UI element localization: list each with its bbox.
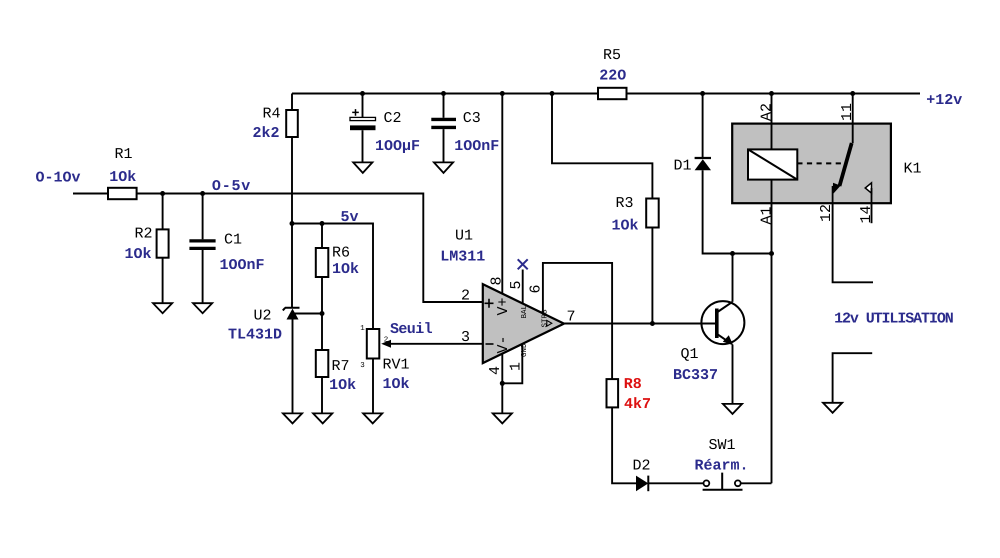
svg-text:BC337: BC337 bbox=[673, 367, 718, 384]
svg-text:LM311: LM311 bbox=[440, 249, 485, 266]
ground R7 bbox=[313, 413, 332, 423]
wire A1 down to SW1 bbox=[771, 180, 773, 484]
junction rail/R3 bbox=[550, 91, 555, 96]
switch SW1 push button bbox=[694, 437, 748, 490]
wire R4 top stub bbox=[291, 94, 293, 111]
wire utilisation return stub bbox=[833, 353, 873, 403]
svg-text:Q1: Q1 bbox=[680, 346, 698, 363]
wire RV1 bottom bbox=[372, 359, 374, 414]
svg-text:1Ok: 1Ok bbox=[382, 376, 409, 393]
svg-text:1Ok: 1Ok bbox=[329, 377, 356, 394]
wire pin 7 output bbox=[564, 323, 715, 325]
ground C2 bbox=[353, 162, 372, 173]
wire pin 6 to R8 bbox=[543, 263, 612, 379]
ground R2 bbox=[153, 303, 172, 313]
wire pin 5 stub bbox=[522, 270, 524, 304]
svg-text:R3: R3 bbox=[615, 195, 633, 212]
resistor R1 bbox=[108, 146, 137, 199]
svg-text:R6: R6 bbox=[332, 245, 350, 262]
wire input 0-10v bbox=[73, 193, 108, 195]
svg-text:1OOnF: 1OOnF bbox=[454, 138, 499, 155]
wire D2 to SW1 bbox=[648, 482, 703, 484]
wire SW1 to A1 net bbox=[741, 482, 772, 484]
svg-text:3: 3 bbox=[360, 361, 365, 370]
svg-text:R2: R2 bbox=[134, 226, 152, 243]
wire Q1 collector bbox=[732, 254, 734, 302]
svg-text:BAL: BAL bbox=[521, 304, 529, 318]
resistor R2 bbox=[124, 226, 168, 264]
svg-text:12v UTILISATION: 12v UTILISATION bbox=[834, 311, 954, 328]
svg-text:+12v: +12v bbox=[926, 92, 962, 109]
wire C1 bottom bbox=[202, 250, 204, 303]
ground RV1 bbox=[363, 413, 382, 423]
wire R3 bottom to pin7 net bbox=[651, 228, 653, 324]
svg-text:1OOnF: 1OOnF bbox=[219, 257, 264, 274]
ground Q1 bbox=[723, 404, 742, 414]
svg-text:1Ok: 1Ok bbox=[124, 246, 151, 263]
svg-text:1OOµF: 1OOµF bbox=[375, 138, 420, 155]
svg-text:STRB: STRB bbox=[541, 309, 550, 328]
potentiometer RV1 bbox=[360, 325, 409, 393]
svg-text:C3: C3 bbox=[463, 110, 481, 127]
wire C1 top bbox=[202, 194, 204, 240]
svg-text:R4: R4 bbox=[262, 106, 280, 123]
no-connect X pin 5 bbox=[518, 259, 528, 269]
ground U2 bbox=[283, 413, 302, 423]
svg-text:RV1: RV1 bbox=[382, 357, 409, 374]
junction U2ref/R6/R7 bbox=[320, 311, 325, 316]
junction rail/A2 bbox=[769, 91, 774, 96]
junction R4/5v bbox=[290, 221, 295, 226]
svg-text:K1: K1 bbox=[903, 161, 921, 178]
svg-text:Seuil: Seuil bbox=[390, 321, 433, 338]
svg-text:2: 2 bbox=[461, 288, 470, 305]
wire R7 bottom bbox=[321, 377, 323, 413]
svg-text:1Ok: 1Ok bbox=[332, 261, 359, 278]
svg-text:U1: U1 bbox=[455, 228, 473, 245]
wire R6 top bbox=[321, 224, 323, 249]
ground utilisation bbox=[823, 403, 842, 413]
junction pin1/pin4 bbox=[500, 381, 505, 386]
shunt regulator U2 TL431D bbox=[228, 308, 300, 344]
wire D1 top bbox=[702, 94, 704, 158]
wire R4 bottom to U2 bbox=[291, 137, 293, 308]
svg-text:O-1Ov: O-1Ov bbox=[35, 170, 80, 187]
svg-text:TL431D: TL431D bbox=[228, 327, 282, 344]
wire pin 4 to ground bbox=[501, 353, 503, 413]
svg-text:R1: R1 bbox=[114, 146, 132, 163]
svg-text:V-: V- bbox=[495, 335, 512, 353]
wire A2 coil bbox=[771, 94, 773, 151]
capacitor C3 bbox=[431, 110, 499, 155]
junction R1/R2 bbox=[160, 191, 165, 196]
svg-text:D2: D2 bbox=[632, 458, 650, 475]
svg-text:SW1: SW1 bbox=[708, 437, 735, 454]
wire pin 14 stub bbox=[871, 203, 873, 223]
transistor Q1 BC337 bbox=[673, 301, 744, 384]
resistor R5 bbox=[598, 47, 627, 99]
svg-text:2k2: 2k2 bbox=[252, 125, 279, 142]
wire U2 ref bbox=[294, 313, 322, 315]
wire C2 top bbox=[362, 94, 364, 118]
svg-text:R7: R7 bbox=[331, 358, 349, 375]
junction R1/C1 bbox=[200, 191, 205, 196]
wire C3 bottom bbox=[443, 129, 445, 162]
svg-text:D1: D1 bbox=[673, 158, 691, 175]
svg-text:22O: 22O bbox=[599, 68, 626, 85]
op-amp U1 LM311 bbox=[440, 228, 564, 364]
junction D1/Q1 collector bbox=[730, 251, 735, 256]
relay K1 bbox=[732, 124, 921, 204]
junction rail/C3 bbox=[441, 91, 446, 96]
svg-text:C2: C2 bbox=[383, 110, 401, 127]
capacitor C2 polarized bbox=[350, 109, 420, 155]
svg-text:V+: V+ bbox=[495, 297, 512, 315]
wire U2 anode bbox=[292, 319, 294, 413]
svg-text:Réarm.: Réarm. bbox=[694, 458, 748, 475]
diode D1 bbox=[673, 158, 711, 175]
wire pin 11 bbox=[852, 94, 854, 144]
junction D1/A1 bbox=[769, 251, 774, 256]
svg-text:O-5v: O-5v bbox=[212, 178, 251, 195]
junction R3/pin7 bbox=[650, 321, 655, 326]
resistor R3 bbox=[611, 195, 658, 235]
wire RV1 wiper to pin3 bbox=[389, 343, 483, 345]
svg-text:R8: R8 bbox=[624, 376, 642, 393]
wire D1 bottom to A1 bbox=[703, 170, 772, 253]
svg-text:3: 3 bbox=[461, 329, 470, 346]
svg-text:C1: C1 bbox=[224, 232, 242, 249]
svg-text:1: 1 bbox=[360, 325, 365, 333]
junction rail/pin8 bbox=[500, 91, 505, 96]
svg-text:2: 2 bbox=[384, 336, 389, 345]
svg-text:A1: A1 bbox=[759, 206, 776, 224]
resistor R8 bbox=[607, 376, 652, 413]
wire C3 top bbox=[443, 94, 445, 118]
wire pin 1 bbox=[502, 344, 522, 384]
wire pin 8 to rail bbox=[501, 94, 503, 295]
svg-text:4k7: 4k7 bbox=[624, 396, 651, 413]
ground C3 bbox=[434, 162, 453, 173]
wire +12v rail left bbox=[292, 93, 598, 95]
wire R6 bottom / R7 top bbox=[321, 277, 323, 350]
wire R8 bottom to D2 bbox=[612, 407, 636, 483]
wire +12v rail right bbox=[627, 93, 921, 95]
junction R6/5v bbox=[320, 221, 325, 226]
capacitor C1 bbox=[189, 232, 264, 275]
svg-text:5v: 5v bbox=[340, 209, 358, 226]
junction rail/pin11 bbox=[850, 91, 855, 96]
wire R2 bottom bbox=[162, 258, 164, 304]
wire C2 bottom bbox=[362, 130, 364, 162]
ground U1 bbox=[493, 413, 512, 423]
wire R2 top bbox=[162, 194, 164, 230]
resistor R4 bbox=[252, 106, 297, 143]
svg-text:1Ok: 1Ok bbox=[611, 218, 638, 235]
wire pin 12 bbox=[833, 203, 873, 282]
ground C1 bbox=[193, 303, 212, 313]
resistor R7 bbox=[316, 350, 356, 394]
wire 5v net bbox=[292, 224, 373, 330]
wire R3 from rail bbox=[552, 94, 652, 199]
svg-text:U2: U2 bbox=[253, 308, 271, 325]
diode D2 bbox=[632, 458, 650, 492]
junction rail/C2 bbox=[360, 91, 365, 96]
wire net 0-5v to op-amp pin2 bbox=[137, 194, 483, 303]
junction rail/D1 bbox=[700, 91, 705, 96]
resistor R6 bbox=[316, 245, 359, 279]
svg-text:R5: R5 bbox=[603, 47, 621, 64]
svg-text:1Ok: 1Ok bbox=[109, 169, 136, 186]
wire Q1 emitter bbox=[732, 345, 734, 404]
svg-text:A2: A2 bbox=[759, 103, 776, 121]
